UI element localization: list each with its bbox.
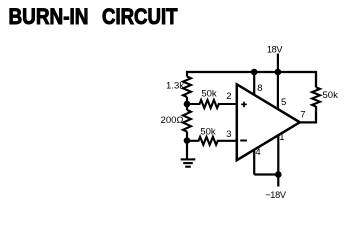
wire pin 4 bbox=[253, 150, 255, 175]
wire left vertical mid bbox=[186, 97, 188, 110]
svg-text:50k: 50k bbox=[323, 90, 339, 101]
power +18V supply stub bbox=[277, 54, 279, 73]
svg-text:7: 7 bbox=[300, 109, 305, 120]
svg-text:BURN-IN: BURN-IN bbox=[9, 4, 89, 29]
svg-text:50k: 50k bbox=[200, 127, 216, 138]
wire bottom horizontal bbox=[254, 173, 278, 175]
node junction dot rail 18V bbox=[275, 69, 282, 76]
wire right vertical bottom bbox=[315, 106, 317, 124]
svg-text:−18V: −18V bbox=[265, 190, 287, 200]
wire left vertical bottom bbox=[186, 132, 188, 159]
svg-text:18V: 18V bbox=[267, 45, 283, 55]
op-amp U1 triangle bbox=[237, 84, 300, 160]
svg-text:1: 1 bbox=[279, 132, 284, 143]
node A junction dot bbox=[184, 101, 191, 108]
wire left vertical top bbox=[186, 71, 188, 77]
resistor R1 1.3k bbox=[183, 77, 191, 97]
wire right vertical top bbox=[315, 71, 317, 87]
wire top rail bbox=[186, 71, 316, 73]
node junction dot bottom bbox=[275, 171, 282, 178]
wire pin 8 bbox=[253, 72, 255, 95]
svg-text:5: 5 bbox=[281, 97, 286, 108]
node junction dot rail pin8 bbox=[251, 69, 258, 76]
op-amp plus input symbol bbox=[241, 102, 247, 108]
resistor R5 50k load bbox=[312, 87, 320, 106]
svg-text:CIRCUIT: CIRCUIT bbox=[102, 4, 178, 29]
resistor R4 50k lower with wire to pin 3 bbox=[187, 137, 237, 145]
wire output pin 7 bbox=[300, 121, 316, 123]
svg-text:4: 4 bbox=[255, 147, 260, 158]
svg-text:2: 2 bbox=[226, 91, 231, 102]
svg-text:8: 8 bbox=[257, 83, 262, 94]
wire pin 1 bbox=[277, 136, 279, 175]
ground bbox=[181, 159, 196, 166]
node B junction dot bbox=[184, 137, 191, 144]
power -18V supply stub bbox=[277, 175, 279, 187]
svg-text:200Ω: 200Ω bbox=[161, 115, 184, 126]
wire pin 5 bbox=[277, 72, 279, 109]
op-amp minus input symbol bbox=[240, 140, 247, 142]
svg-text:3: 3 bbox=[226, 129, 231, 140]
svg-text:1.3k: 1.3k bbox=[166, 81, 184, 92]
resistor R2 200ohm bbox=[183, 110, 191, 132]
svg-text:50k: 50k bbox=[201, 89, 217, 100]
resistor R3 50k upper with wire to pin 2 bbox=[187, 100, 237, 108]
